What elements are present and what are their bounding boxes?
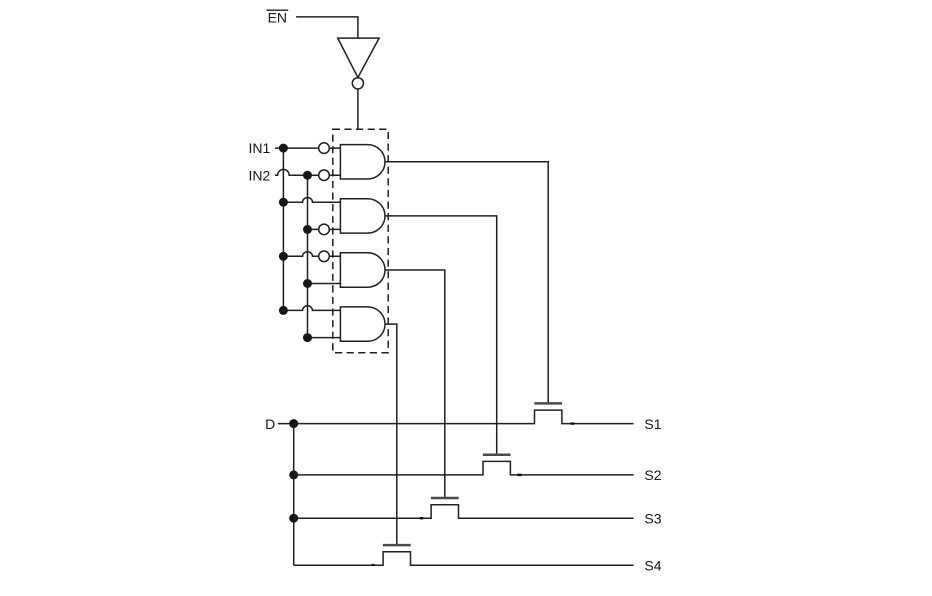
svg-text:IN1: IN1 — [249, 140, 271, 156]
wire row S3 with transistor Q3 channel — [294, 505, 634, 519]
transistor Q2 gate bar — [483, 453, 511, 456]
wire joint tick S2 row — [517, 474, 522, 476]
inverter U1 — [338, 38, 379, 77]
node D junction dot row S3 — [289, 514, 298, 523]
transistor Q3 gate bar — [431, 497, 459, 500]
wire G2 output to Q2 gate — [385, 216, 497, 455]
wire IN2 bus to gate G3 bottom input — [308, 283, 341, 285]
node D junction dot row S2 — [289, 470, 298, 479]
decoder dashed box — [333, 129, 388, 352]
svg-text:S1: S1 — [644, 416, 661, 432]
inverter U1 output bubble — [352, 78, 363, 89]
wire G3 output to Q3 gate — [385, 270, 445, 498]
wire IN1 to gate G1 top input — [275, 147, 341, 149]
svg-text:S4: S4 — [644, 558, 661, 574]
wire IN1 bus to gate G4 top input (hop over IN2 bus) — [283, 306, 340, 311]
and-gate G4 — [340, 307, 385, 341]
node IN1 junction dot row 3 — [279, 252, 288, 261]
svg-text:S3: S3 — [644, 510, 661, 526]
node IN2 junction dot row 2 — [303, 225, 312, 234]
wire D vertical bus — [293, 424, 295, 566]
input bubble G1 bottom — [319, 170, 330, 181]
wire IN2 to gate G1 bottom input (hop over IN1 bus) — [275, 169, 341, 175]
wire row S2 with transistor Q2 channel — [294, 461, 634, 475]
svg-text:S2: S2 — [644, 467, 661, 483]
wire IN2 vertical bus — [307, 175, 309, 337]
node IN2 junction dot row 3 — [303, 279, 312, 288]
and-gate G3 — [340, 253, 385, 287]
node IN2 junction dot row 4 — [303, 333, 312, 342]
node IN1 junction dot row 2 — [279, 198, 288, 207]
wire EN to inverter input — [296, 17, 358, 38]
net EN label — [267, 10, 289, 26]
wire row S1 with transistor Q1 channel — [294, 410, 634, 424]
wire IN1 vertical bus — [282, 148, 284, 310]
wire IN2 bus to gate G4 bottom input — [308, 337, 341, 339]
transistor Q4 gate bar — [383, 544, 411, 547]
transistor Q1 gate bar — [534, 402, 562, 405]
wire G4 output to Q4 gate — [385, 324, 397, 545]
wire G1 output to Q1 gate — [385, 162, 548, 404]
wire joint tick S4 row — [371, 564, 374, 566]
node IN2 junction dot row 1 — [303, 171, 312, 180]
svg-text:D: D — [265, 416, 275, 432]
wire D to bus — [278, 423, 294, 425]
and-gate G1 — [340, 145, 385, 179]
input bubble G1 top — [319, 143, 330, 154]
wire row S4 with transistor Q4 channel — [294, 552, 634, 566]
svg-text:EN: EN — [268, 10, 287, 26]
input bubble G3 top — [319, 251, 330, 262]
node D junction dot row S1 — [289, 419, 298, 428]
wire IN1 bus to gate G3 top input (hop over IN2 bus) — [283, 252, 340, 257]
wire inverter output to decoder box — [357, 89, 359, 129]
svg-text:IN2: IN2 — [249, 167, 271, 183]
wire joint tick S1 row — [571, 422, 575, 424]
and-gate G2 — [340, 199, 385, 233]
wire joint tick S3 row — [420, 517, 423, 519]
wire IN2 bus to gate G2 bottom input — [308, 228, 341, 230]
node IN1 junction dot row 4 — [279, 306, 288, 315]
input bubble G2 bottom — [319, 224, 330, 235]
node IN1 junction dot row 1 — [279, 144, 288, 153]
wire IN1 bus to gate G2 top input (hop over IN2 bus) — [283, 198, 340, 203]
